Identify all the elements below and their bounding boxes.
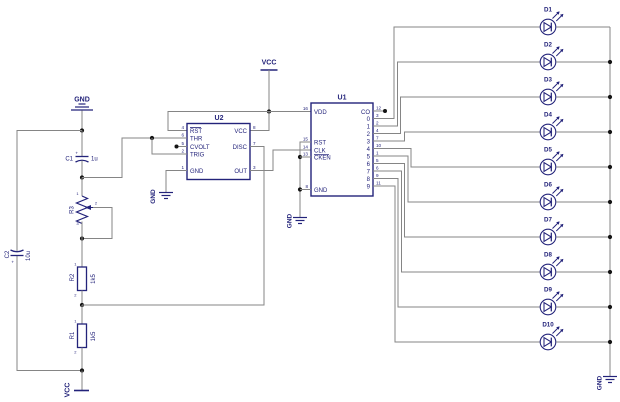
wire U1 output 3 to D4 <box>373 132 540 141</box>
wire wiper to node C <box>82 208 112 239</box>
svg-text:OUT: OUT <box>234 169 247 175</box>
wire U2 OUT to U1 CLK <box>250 150 311 171</box>
wire R2 to node D <box>81 291 83 306</box>
wire to U1 CKEN <box>300 156 311 158</box>
no-connect dot CO <box>383 109 387 113</box>
wire U1 output 5 to D6 <box>373 156 540 202</box>
junction U1 GND pin <box>298 187 302 191</box>
potentiometer R3 <box>77 196 88 224</box>
svg-text:3: 3 <box>253 165 256 170</box>
LED D2 <box>540 46 563 69</box>
svg-text:R3: R3 <box>70 206 76 214</box>
wire node C to R2 <box>81 239 83 268</box>
wire U2 DISC to node D <box>82 147 264 306</box>
wire C2 bottom to VCC node <box>17 256 82 371</box>
wire node D to R1 <box>81 305 83 324</box>
wire VCC symbol to rail <box>268 70 270 112</box>
junction node C <box>80 236 84 240</box>
wire U2 GND pin to ground <box>166 171 187 193</box>
svg-text:15: 15 <box>303 137 309 142</box>
wire U1 CO stub <box>373 110 384 112</box>
svg-text:CKEN: CKEN <box>314 156 331 162</box>
junction rail <box>608 340 612 344</box>
svg-text:GND: GND <box>287 213 294 228</box>
junction rail <box>608 235 612 239</box>
svg-text:6: 6 <box>376 166 379 171</box>
wire D3 to cathode rail <box>556 96 610 98</box>
junction node B (THR net) <box>80 175 84 179</box>
svg-text:8: 8 <box>305 184 308 189</box>
wire to U1 GND pin <box>300 189 311 191</box>
svg-text:VCC: VCC <box>234 129 247 135</box>
svg-text:D10: D10 <box>542 322 554 329</box>
svg-text:CLK: CLK <box>314 149 326 155</box>
wire U1 RST to ground rail <box>300 142 311 217</box>
U1 CKEN overbar <box>314 154 329 156</box>
junction rail <box>608 270 612 274</box>
svg-text:THR: THR <box>190 137 203 143</box>
svg-text:9: 9 <box>376 173 379 178</box>
op-amp U2 555 timer <box>187 124 250 180</box>
junction rail <box>608 60 612 64</box>
wire U2 RST to VCC rail <box>168 112 269 131</box>
wire to VCC symbol <box>81 371 83 391</box>
svg-text:VCC: VCC <box>262 60 277 67</box>
svg-text:GND: GND <box>597 375 604 390</box>
junction rail <box>608 130 612 134</box>
wire U1 output 4 to D5 <box>373 149 540 168</box>
wire R1 to VCC node <box>81 348 83 371</box>
junction rail <box>608 200 612 204</box>
wire R3 bottom to node C <box>81 222 83 239</box>
wire U1 output 2 to D3 <box>373 97 540 134</box>
LED D5 <box>540 151 563 174</box>
junction VCC node <box>80 368 84 372</box>
svg-text:12: 12 <box>376 106 382 111</box>
svg-text:D5: D5 <box>544 147 552 154</box>
svg-text:2: 2 <box>376 121 379 126</box>
wire node B to R3 <box>81 178 83 197</box>
LED D9 <box>540 291 563 314</box>
ground bars (U1) <box>293 218 307 224</box>
svg-text:RST: RST <box>190 129 202 135</box>
svg-text:R1: R1 <box>70 331 76 339</box>
svg-text:5: 5 <box>376 158 379 163</box>
svg-text:D6: D6 <box>544 182 552 189</box>
svg-text:7: 7 <box>376 136 379 141</box>
svg-text:1k5: 1k5 <box>91 274 97 284</box>
wire cathode rail <box>609 27 611 376</box>
junction rail <box>608 165 612 169</box>
LED D6 <box>540 186 563 209</box>
svg-text:7: 7 <box>253 141 256 146</box>
svg-text:VCC: VCC <box>65 383 72 398</box>
svg-text:DISC: DISC <box>233 145 248 151</box>
svg-text:U2: U2 <box>215 115 224 122</box>
wire D8 to cathode rail <box>556 271 610 273</box>
svg-text:CVOLT: CVOLT <box>190 145 210 151</box>
wire U1 output 0 to D1 <box>373 27 540 119</box>
junction rail <box>608 95 612 99</box>
svg-text:GND: GND <box>190 169 204 175</box>
ground bars (top left) <box>71 104 93 110</box>
ground bars (bottom right) <box>603 377 617 383</box>
svg-text:D3: D3 <box>544 77 552 84</box>
wire D9 to cathode rail <box>556 306 610 308</box>
wire THR junction to U2 TRIG <box>152 138 187 154</box>
wire D5 to cathode rail <box>556 166 610 168</box>
svg-text:U1: U1 <box>338 95 347 102</box>
resistor R1 1k5 <box>78 324 87 348</box>
capacitor C2 10u <box>11 250 24 256</box>
svg-text:GND: GND <box>314 188 328 194</box>
wire D7 to cathode rail <box>556 236 610 238</box>
wire D2 to cathode rail <box>556 61 610 63</box>
svg-text:6: 6 <box>181 133 184 138</box>
wire D6 to cathode rail <box>556 201 610 203</box>
wire U1 output 6 to D7 <box>373 164 540 238</box>
svg-text:GND: GND <box>150 189 157 204</box>
svg-text:+: + <box>75 151 78 156</box>
wire U1 output 7 to D8 <box>373 171 540 272</box>
svg-text:D2: D2 <box>544 42 552 49</box>
capacitor C1 1u <box>76 157 89 163</box>
svg-text:D7: D7 <box>544 217 552 224</box>
svg-text:3: 3 <box>376 113 379 118</box>
wire node B to U2 THR <box>82 138 187 178</box>
resistor R2 1k5 <box>78 267 87 291</box>
svg-text:2: 2 <box>181 149 184 154</box>
ground bars (U2) <box>159 193 173 199</box>
LED D3 <box>540 81 563 104</box>
junction THR/TRIG <box>150 136 154 140</box>
IC U1 4017 counter <box>311 103 373 196</box>
svg-text:1: 1 <box>376 151 379 156</box>
wire D1 to cathode rail <box>556 26 610 28</box>
svg-text:10u: 10u <box>26 251 32 261</box>
svg-text:D4: D4 <box>544 112 552 119</box>
svg-text:5: 5 <box>181 141 184 146</box>
svg-text:4: 4 <box>181 125 184 130</box>
LED D7 <box>540 221 563 244</box>
svg-text:11: 11 <box>376 181 381 186</box>
svg-text:GND: GND <box>74 97 90 104</box>
svg-text:1k5: 1k5 <box>91 331 97 341</box>
wire U1 output 8 to D9 <box>373 179 540 308</box>
svg-text:16: 16 <box>303 106 309 111</box>
svg-text:1: 1 <box>181 165 184 170</box>
svg-text:VDD: VDD <box>314 110 327 116</box>
wire U2 CVOLT stub <box>177 146 187 148</box>
LED D1 <box>540 11 563 34</box>
svg-text:8: 8 <box>253 125 256 130</box>
junction CKEN/gnd <box>298 155 302 159</box>
wire D10 to cathode rail <box>556 341 610 343</box>
svg-text:D9: D9 <box>544 287 552 294</box>
svg-text:C1: C1 <box>65 157 73 163</box>
junction node A (GND rail) <box>80 128 84 132</box>
wire GND to node A <box>81 111 83 131</box>
svg-text:C2: C2 <box>5 250 11 258</box>
no-connect dot CVOLT <box>175 145 179 149</box>
svg-text:RST: RST <box>314 141 326 147</box>
svg-text:10: 10 <box>376 143 382 148</box>
LED D10 <box>540 326 563 349</box>
svg-text:R2: R2 <box>70 273 76 281</box>
svg-text:4: 4 <box>376 128 379 133</box>
svg-text:1u: 1u <box>91 157 98 163</box>
R3 wiper arrow <box>85 205 91 210</box>
wire VCC rail to U2 VCC pin <box>250 112 269 131</box>
svg-text:14: 14 <box>303 145 309 150</box>
svg-text:D1: D1 <box>544 7 552 14</box>
wire C1 to node B <box>81 161 83 178</box>
wire D4 to cathode rail <box>556 131 610 133</box>
LED D4 <box>540 116 563 139</box>
junction node D (DISC net) <box>80 303 84 307</box>
svg-text:D8: D8 <box>544 252 552 259</box>
svg-text:+: + <box>11 260 14 265</box>
wire U1 output 1 to D2 <box>373 62 540 126</box>
svg-text:CO: CO <box>361 110 370 116</box>
wire VCC rail to U1 VDD <box>269 111 311 113</box>
power symbol VCC (bottom left) <box>74 390 89 392</box>
junction VCC rail <box>267 109 271 113</box>
wire U1 output 9 to D10 <box>373 186 540 342</box>
svg-text:TRIG: TRIG <box>190 153 205 159</box>
junction rail <box>608 305 612 309</box>
svg-text:13: 13 <box>303 152 309 157</box>
U2 RST overbar <box>190 127 201 129</box>
wire node A to C1 <box>81 131 83 157</box>
LED D8 <box>540 256 563 279</box>
wire node A to C2 top <box>17 131 82 252</box>
